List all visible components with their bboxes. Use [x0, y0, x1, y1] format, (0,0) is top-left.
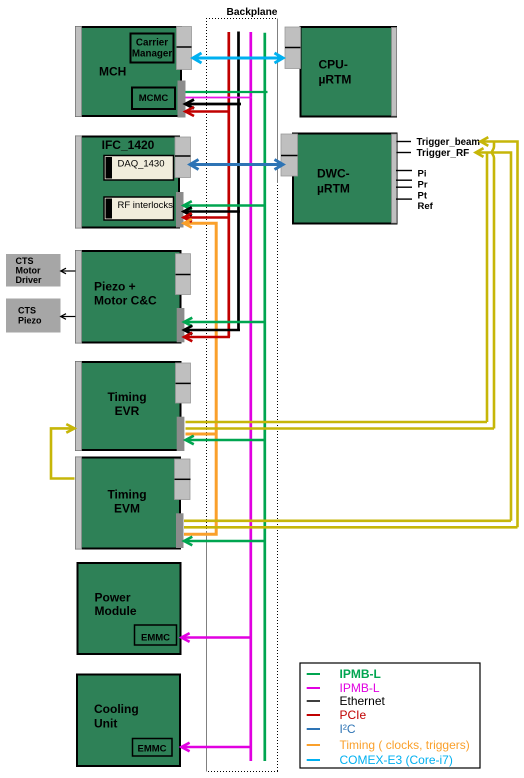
IFC AMC connector (dark)	[176, 192, 184, 228]
svg-text:IPMB-L: IPMB-L	[340, 681, 380, 695]
svg-text:Ref: Ref	[418, 201, 434, 212]
svg-text:Pr: Pr	[418, 180, 428, 191]
EVM AMC connector (dark)	[176, 513, 184, 548]
wire PCIe vertical bus	[227, 32, 230, 337]
MCH AMC connector (dark)	[178, 81, 186, 118]
DWC pin Pr	[396, 179, 412, 181]
wire IPMB-L magenta vertical bus	[249, 32, 252, 761]
module Power Module	[78, 563, 181, 654]
wire Ethernet vertical bus	[237, 32, 240, 331]
box CTS Motor Driver	[6, 254, 61, 287]
sub-module EMMC (power)	[135, 625, 177, 645]
svg-text:IFC_1420: IFC_1420	[102, 138, 155, 152]
svg-text:COMEX-E3 (Core-i7): COMEX-E3 (Core-i7)	[340, 753, 453, 767]
svg-text:DWC-: DWC-	[317, 167, 350, 181]
legend IPMB-L green	[307, 667, 381, 681]
svg-text:CTS: CTS	[18, 306, 36, 316]
wire yellow vertical v518 (Trigger_beam to EVM)	[481, 142, 518, 528]
DWC left connector tabs	[281, 134, 298, 176]
legend COMEX-E3	[307, 753, 453, 767]
svg-text:Pt: Pt	[418, 191, 428, 202]
svg-text:Ethernet: Ethernet	[340, 694, 386, 708]
wire COMEX-E3 link MCH-CPU (cyan double arrow)	[193, 53, 283, 63]
wire IPMB-L green to Piezo (arrow)	[184, 318, 265, 327]
module DWC-uRTM	[293, 134, 397, 224]
svg-text:Cooling: Cooling	[94, 702, 139, 716]
legend Ethernet	[307, 694, 386, 708]
svg-text:µRTM: µRTM	[319, 73, 352, 87]
svg-text:Piezo +: Piezo +	[94, 280, 136, 294]
module Cooling Unit	[77, 675, 180, 767]
svg-text:EVR: EVR	[115, 404, 140, 418]
wire yellow vertical v494 (Trigger_beam to EVR, hop)	[492, 142, 494, 429]
sub-module RF interlocks	[104, 197, 174, 220]
arrowhead yellow Trigger_beam	[481, 137, 489, 146]
DWC pin Trigger_RF	[397, 152, 412, 154]
wire PCIe to Piezo (arrow, bus corner)	[184, 333, 230, 342]
wire Timing orange path (IFC to EVR/EVM)	[184, 223, 217, 534]
wire Trigger_beam yellow to EVM	[184, 526, 518, 529]
sub-module MCMC	[132, 88, 175, 110]
svg-text:Timing: Timing	[107, 488, 146, 502]
svg-text:Unit: Unit	[94, 716, 117, 730]
sub-module DAQ_1430	[104, 156, 174, 181]
legend box	[300, 663, 480, 768]
box CTS Piezo	[6, 299, 61, 333]
svg-text:IPMB-L: IPMB-L	[340, 667, 381, 681]
wire IPMB-L green to EVM (arrow)	[184, 537, 265, 546]
svg-text:CTS: CTS	[16, 256, 34, 266]
wire IPMB-L magenta to Cooling EMMC (arrow)	[181, 743, 251, 752]
DWC pin Trigger_beam	[397, 141, 412, 143]
wire yellow vertical v511 (Trigger_RF to EVM)	[476, 153, 512, 521]
module CPU-uRTM	[301, 27, 397, 117]
svg-text:DAQ_1430: DAQ_1430	[118, 159, 165, 170]
wire orange branch to EVR	[186, 433, 217, 436]
arrow Piezo to CTS Piezo	[61, 314, 76, 320]
wire Trigger_RF yellow to EVM	[184, 519, 511, 522]
arrowhead yellow Trigger_RF	[476, 148, 484, 157]
svg-text:Carrier: Carrier	[136, 38, 168, 49]
legend I2C	[307, 722, 356, 736]
svg-text:Trigger_beam: Trigger_beam	[417, 137, 481, 148]
svg-text:EMMC: EMMC	[141, 633, 170, 644]
module Timing EVR	[76, 362, 181, 451]
wire IPMB-L magenta to MCH	[186, 97, 253, 99]
svg-text:MCH: MCH	[99, 65, 126, 79]
wire Ethernet to IFC (arrow)	[184, 207, 240, 216]
svg-text:Manager: Manager	[132, 48, 172, 59]
module Timing EVM	[76, 457, 181, 549]
DWC pin Pt	[396, 198, 412, 200]
svg-text:MCMC: MCMC	[139, 93, 169, 104]
svg-text:Trigger_RF: Trigger_RF	[417, 148, 470, 159]
legend IPMB-L magenta	[307, 681, 380, 695]
module IFC_1420	[76, 136, 180, 228]
svg-text:Driver: Driver	[16, 275, 43, 285]
wire yellow vertical v487 (Trigger_RF to EVR)	[486, 153, 489, 423]
backplane dotted enclosure	[206, 19, 278, 772]
svg-text:Power: Power	[95, 590, 131, 604]
legend Timing	[307, 738, 470, 752]
svg-text:Pi: Pi	[418, 169, 427, 180]
sub-module EMMC (cooling)	[133, 739, 173, 757]
arrowhead Timing orange into IFC	[184, 219, 192, 228]
svg-text:Timing: Timing	[107, 390, 146, 404]
arrow Piezo to CTS Motor Driver	[61, 268, 76, 274]
svg-text:CPU-: CPU-	[319, 58, 348, 72]
IFC right connector tabs	[175, 137, 191, 178]
wire IPMB-L green to IFC (arrow)	[184, 201, 265, 210]
svg-text:EVM: EVM	[114, 502, 140, 516]
EVR AMC connector (dark)	[177, 417, 185, 451]
DWC pin Pi	[396, 170, 412, 172]
svg-text:Backplane: Backplane	[227, 7, 278, 18]
wire yellow loop EVM to EVR	[51, 424, 75, 478]
wire Ethernet to Piezo (arrow, bus corner)	[184, 326, 240, 335]
module MCH	[76, 27, 182, 117]
svg-text:Timing ( clocks, triggers): Timing ( clocks, triggers)	[340, 738, 470, 752]
wire IPMB-L green to EVR (arrow)	[186, 436, 265, 445]
svg-text:Motor: Motor	[16, 266, 41, 276]
wire IPMB-L green to MCH	[186, 91, 268, 93]
svg-text:RF interlocks: RF interlocks	[118, 200, 174, 211]
wire Ethernet to MCH (arrow)	[185, 100, 241, 109]
sub-module Carrier Manager	[131, 34, 174, 63]
wire PCIe to IFC (arrow)	[184, 213, 230, 222]
wire Trigger_beam yellow to EVR	[186, 427, 495, 430]
svg-text:µRTM: µRTM	[317, 182, 350, 196]
CPU left connector tabs	[285, 27, 301, 69]
svg-text:PCIe: PCIe	[340, 708, 367, 722]
MCH right connector tabs	[177, 27, 192, 70]
wire IPMB-L green vertical bus	[263, 33, 266, 761]
EVM right connector tabs	[175, 459, 191, 500]
DWC pin Pr2	[396, 186, 412, 188]
svg-text:EMMC: EMMC	[137, 744, 166, 755]
wire PCIe to MCH (arrow)	[185, 107, 230, 116]
wire I2C link IFC-DWC (blue double arrow)	[190, 160, 283, 170]
EVR right connector tabs	[176, 363, 191, 403]
svg-text:Motor C&C: Motor C&C	[94, 294, 157, 308]
svg-text:Piezo: Piezo	[18, 316, 42, 326]
svg-text:Module: Module	[95, 604, 137, 618]
module Piezo + Motor C&C	[76, 251, 181, 344]
wire Trigger_RF yellow to EVR	[186, 421, 488, 424]
Piezo AMC connector (dark)	[177, 308, 185, 342]
svg-text:I²C: I²C	[340, 722, 356, 736]
legend PCIe	[307, 708, 367, 722]
wire IPMB-L magenta to Power EMMC (arrow)	[181, 633, 251, 642]
Piezo right connector tabs	[176, 254, 191, 295]
